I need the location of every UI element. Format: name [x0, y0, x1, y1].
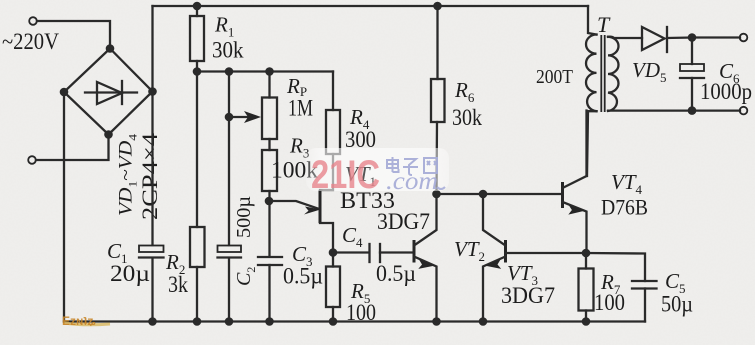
transistor VT3 (mirrored) [483, 194, 586, 322]
terminal output bottom [740, 107, 748, 115]
svg-text:1M: 1M [288, 96, 313, 121]
svg-text:200T: 200T [536, 66, 573, 88]
svg-text:100: 100 [346, 300, 376, 325]
node rail junction C3 [265, 317, 274, 326]
resistor R5 [326, 253, 340, 322]
wire bus right end down to R4 [332, 72, 334, 111]
svg-text:3DG7: 3DG7 [501, 283, 555, 308]
svg-text:30k: 30k [212, 38, 244, 63]
wire R3 bottom to C3 [268, 191, 270, 257]
svg-text:500µ: 500µ [233, 196, 255, 238]
wire wiper column down to C2 [228, 72, 230, 246]
node wiper branch junction [225, 67, 234, 76]
wire bridge left vertex down to bottom rail [63, 96, 65, 322]
svg-text:50µ: 50µ [661, 292, 693, 317]
wire to output terminal top [692, 36, 740, 38]
svg-text:.com: .com [386, 168, 438, 195]
terminal top-left AC input [29, 17, 37, 25]
node VT4 emitter junction [582, 249, 591, 258]
svg-text:2CP4×4: 2CP4×4 [137, 133, 162, 220]
svg-text:0.5µ: 0.5µ [376, 261, 416, 286]
svg-text:D76B: D76B [601, 195, 648, 220]
watermark 21IC backdrop [0, 0, 1, 1]
node bridge right vertex [148, 87, 157, 96]
node R7 bottom on rail [582, 317, 591, 326]
node bridge left vertex [60, 88, 69, 97]
node VT3 collector junction [479, 190, 488, 199]
svg-text:20µ: 20µ [110, 261, 150, 286]
transformer core [601, 35, 604, 112]
resistor R6 [431, 6, 445, 194]
svg-text:T: T [597, 12, 611, 37]
potentiometer RP [262, 98, 277, 140]
terminal output top [740, 34, 748, 42]
svg-text:VD1~VD4: VD1~VD4 [116, 134, 140, 216]
diode inside bridge [85, 81, 137, 104]
wire RP to R3 [268, 139, 270, 150]
node wiper junction [225, 113, 234, 122]
transistor VT2 [414, 194, 437, 322]
wire VT3 base bus to C5 corner [586, 253, 645, 281]
capacitor C5 [632, 281, 657, 322]
resistor R7 [579, 253, 594, 322]
node rail junction C1 [148, 317, 157, 326]
resistor R2 [190, 227, 205, 322]
node rail junction VT3 emitter [479, 317, 488, 326]
wire bridge right vertex up to top rail [151, 6, 153, 92]
unijunction transistor VT1 [269, 154, 333, 253]
wire horizontal bus under R1 [197, 70, 333, 72]
watermark chinese dianziwang glyphs [387, 157, 437, 175]
node R3 bottom junction [265, 197, 274, 206]
capacitor C3 [258, 257, 282, 322]
node bridge top vertex [106, 44, 115, 53]
node bridge bottom vertex [104, 130, 113, 139]
bottom rail [64, 320, 645, 322]
diode VD5 [642, 27, 692, 52]
transformer T secondary winding [608, 37, 692, 111]
node R1 bottom junction [193, 67, 202, 76]
wiper arrow to RP [229, 111, 261, 123]
transformer T primary winding [586, 6, 597, 176]
svg-text:100: 100 [594, 290, 625, 315]
wire B1 junction to C4 [333, 251, 369, 253]
bridge rectifier VD1-VD4 diamond [64, 49, 153, 135]
svg-text:3DG7: 3DG7 [377, 209, 430, 234]
svg-text:Ezɴʇʑ: Ezɴʇʑ [62, 314, 96, 328]
node RP top junction [265, 67, 274, 76]
wire RP junction down [268, 72, 270, 98]
svg-text:0.5µ: 0.5µ [283, 264, 323, 289]
node rail junction R2 [193, 317, 202, 326]
svg-text:3k: 3k [168, 272, 188, 297]
node C6 bottom junction [688, 106, 697, 115]
transistor VT4 [563, 111, 587, 253]
node R1 top on rail [193, 2, 202, 11]
wire R1-junction down to R2 [196, 72, 198, 228]
svg-text:1000p: 1000p [700, 79, 752, 104]
node B1 junction with C4/R5 [329, 248, 338, 257]
svg-text:~220V: ~220V [2, 29, 59, 54]
node VT2 collector junction [432, 190, 441, 199]
resistor R3 [262, 150, 277, 191]
resistor R1 [190, 6, 204, 72]
wire C1 to bottom rail [151, 258, 153, 322]
capacitor C1 (polarized) [139, 246, 164, 258]
wire terminal2 to bridge bottom [36, 135, 109, 161]
node rail junction C2 [225, 317, 234, 326]
svg-text:30k: 30k [452, 105, 482, 130]
node R6 top on rail [433, 2, 442, 11]
terminal bottom-left AC input [28, 156, 36, 164]
capacitor C6 [680, 38, 704, 111]
node rail junction R5 [329, 317, 338, 326]
resistor R4 [326, 110, 340, 154]
wire terminal1 to bridge top [37, 21, 110, 49]
wire bridge right vertex down to C1 [151, 92, 153, 246]
top rail [153, 5, 589, 7]
capacitor C2 (polarized) [218, 246, 242, 322]
wire collector bus y194 [437, 193, 563, 195]
watermark bottom-left underline streak [64, 323, 110, 325]
watermark .com swash [437, 187, 445, 189]
capacitor C4 [370, 244, 414, 262]
node rail junction VT2 emitter [432, 317, 441, 326]
svg-text:21IC: 21IC [311, 153, 380, 197]
wire to output terminal bottom [692, 109, 740, 111]
node C6 top junction [688, 33, 697, 42]
